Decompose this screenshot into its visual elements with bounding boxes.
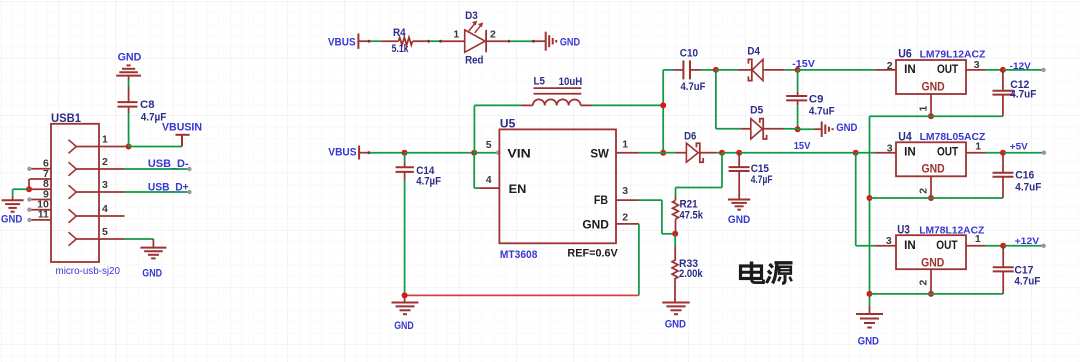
title text 电源 <box>741 262 793 284</box>
USB1 pin 8 <box>29 178 51 190</box>
capacitor C14 stem <box>404 153 406 168</box>
svg-text:GND: GND <box>560 36 580 48</box>
port VBUS symbol (mid) <box>358 146 360 160</box>
capacitor C10 value <box>681 81 706 93</box>
svg-text:2: 2 <box>918 280 930 286</box>
svg-text:C16: C16 <box>1015 169 1034 181</box>
svg-text:OUT: OUT <box>936 240 957 252</box>
capacitor C17 bottom stem <box>1002 271 1004 294</box>
ic U3 pin 2 number <box>918 280 930 286</box>
svg-text:IN: IN <box>904 240 916 252</box>
resistor R33 value <box>679 268 703 280</box>
junction U3 GND <box>928 291 934 297</box>
ic U4 part name <box>920 131 986 143</box>
capacitor C8 value <box>141 112 167 124</box>
wire VBUS to C14 <box>359 151 405 154</box>
svg-text:2: 2 <box>102 156 108 168</box>
ic U3 pin name IN <box>904 240 916 252</box>
capacitor C9 <box>786 96 807 100</box>
net label GND (USB pin5) <box>142 268 162 280</box>
svg-text:GND: GND <box>921 258 944 270</box>
ic U6 pin 1 number <box>918 106 930 112</box>
capacitor C9 designator <box>809 94 824 106</box>
svg-text:GND: GND <box>922 81 945 93</box>
wire output to R21 <box>676 153 723 197</box>
ic U4 pin 3 number <box>887 142 893 154</box>
USB1 pin 4 <box>69 203 125 223</box>
wire C14 to bottom <box>404 172 406 296</box>
capacitor C12 stem <box>1002 70 1004 91</box>
capacitor C17 designator <box>1014 265 1033 277</box>
ic U4 internal GND <box>922 164 945 176</box>
svg-text:47.5k: 47.5k <box>680 209 704 221</box>
wire to C15 junction <box>722 152 739 154</box>
capacitor C10 designator <box>680 48 698 60</box>
svg-text:4: 4 <box>486 174 492 186</box>
svg-text:GND: GND <box>836 122 857 134</box>
capacitor C16 stem <box>1002 153 1004 173</box>
capacitor C8 <box>118 102 138 107</box>
svg-text:USB_D-: USB_D- <box>148 158 189 170</box>
junction D6 output A <box>719 150 725 156</box>
wire FB <box>616 200 675 234</box>
ic U3 pin 3 number <box>886 235 892 247</box>
ic U6 body <box>896 60 966 94</box>
svg-text:GND: GND <box>922 164 945 176</box>
capacitor C12 bottom stem <box>1002 95 1004 117</box>
ic U5 pin 1 number <box>622 139 628 151</box>
ic U6 part name <box>920 48 986 60</box>
ic U6 pin 2 number <box>887 60 893 72</box>
svg-text:4.7uF: 4.7uF <box>681 81 706 93</box>
svg-text:VBUS: VBUS <box>328 36 356 48</box>
ic U3 part name <box>919 224 985 236</box>
ic U4 designator <box>898 131 912 143</box>
ic U6 pin 3 number <box>974 59 980 71</box>
svg-text:GND: GND <box>1 214 22 226</box>
capacitor C17 <box>993 267 1014 271</box>
junction EN/VIN node <box>471 150 477 156</box>
ic U5 pin name GND <box>582 217 609 231</box>
svg-text:1: 1 <box>975 233 981 245</box>
ic U6 pin 1 stem <box>930 94 932 116</box>
diode D6 designator <box>684 131 696 143</box>
svg-text:R4: R4 <box>393 27 406 39</box>
svg-text:VBUS: VBUS <box>328 147 356 159</box>
led D3 arrows <box>469 21 484 33</box>
net label GND (C9) <box>836 122 857 134</box>
capacitor C12 value <box>1010 88 1036 100</box>
ic U4 pin 2 number <box>918 188 930 194</box>
ic U6 pin 2 stub <box>875 69 896 71</box>
wire -15V to U6 <box>798 69 876 71</box>
resistor R21 designator <box>680 199 698 211</box>
wire R4 to D3 <box>427 40 442 43</box>
ic U6 pin name IN <box>904 64 916 76</box>
resistor R21 <box>673 197 679 234</box>
wire EN branch <box>474 153 499 188</box>
svg-text:IN: IN <box>904 146 916 158</box>
led D3 value <box>465 55 483 67</box>
led D3 <box>441 30 508 52</box>
ic U5 pin 3 number <box>622 185 628 197</box>
svg-text:GND: GND <box>394 320 414 332</box>
wire SW vertical <box>662 70 664 153</box>
wire +5V end <box>1003 151 1046 155</box>
junction SW node <box>660 150 666 156</box>
svg-text:VIN: VIN <box>507 147 530 161</box>
ic U4 pin name OUT <box>937 146 958 158</box>
junction +12V node <box>1000 243 1006 249</box>
junction U6 GND <box>928 113 934 119</box>
capacitor C12 designator <box>1010 79 1029 91</box>
junction L5/C10 corner <box>660 102 666 108</box>
svg-text:GND: GND <box>582 217 609 231</box>
svg-text:3: 3 <box>974 59 980 71</box>
svg-text:D3: D3 <box>465 10 478 22</box>
junction C9 bottom <box>795 126 801 132</box>
svg-text:EN: EN <box>509 182 527 196</box>
wire C15 to GND <box>738 171 740 200</box>
capacitor C9 stem top <box>797 70 799 96</box>
junction GND bus U4 row <box>867 195 873 201</box>
wire to VIN pin <box>474 151 500 155</box>
capacitor C12 <box>993 91 1014 95</box>
svg-text:OUT: OUT <box>937 146 958 158</box>
ic U4 pin 1 number <box>975 141 981 153</box>
led D3 designator <box>465 10 478 22</box>
diode D4 <box>716 59 798 80</box>
svg-text:OUT: OUT <box>937 64 958 76</box>
junction 15V branch <box>853 150 859 156</box>
wire bottom red return <box>405 294 639 296</box>
svg-text:5.1k: 5.1k <box>392 43 410 55</box>
svg-text:2: 2 <box>918 188 930 194</box>
svg-text:GND: GND <box>118 52 142 64</box>
capacitor C16 designator <box>1015 169 1034 181</box>
capacitor C15 designator <box>751 163 769 175</box>
svg-text:15V: 15V <box>794 141 811 152</box>
net label 15V <box>794 141 811 152</box>
svg-text:C10: C10 <box>680 48 698 60</box>
svg-text:10uH: 10uH <box>559 76 583 88</box>
USB1 pin 3 <box>69 179 125 199</box>
ic U6 pin name OUT <box>937 64 958 76</box>
net label GND (C15) <box>728 214 750 226</box>
svg-text:GND: GND <box>142 268 162 280</box>
wire U6 GND row <box>870 115 1003 117</box>
port VBUS symbol (top) <box>357 34 359 49</box>
junction GND bus U3 row <box>867 291 873 297</box>
junction +5V node <box>1000 150 1006 156</box>
svg-text:4.7uF: 4.7uF <box>809 105 835 117</box>
wire USB_D- <box>125 167 192 171</box>
net label GND (USB left) <box>1 214 22 226</box>
connector USB1 designator <box>51 113 82 125</box>
svg-text:micro-usb-sj20: micro-usb-sj20 <box>56 266 121 277</box>
svg-text:3: 3 <box>102 179 108 191</box>
inductor L5 <box>521 88 592 105</box>
connector USB1 body <box>51 124 99 262</box>
ground GND (C14) <box>392 295 419 314</box>
svg-text:3: 3 <box>887 142 893 154</box>
capacitor C15 <box>729 167 750 171</box>
svg-text:SW: SW <box>590 147 609 161</box>
diode D6 <box>663 143 722 162</box>
capacitor C9 value <box>809 105 835 117</box>
ic U5 pin name EN <box>509 182 527 196</box>
svg-text:4: 4 <box>102 203 108 215</box>
wire D3 to GND <box>508 40 535 43</box>
svg-text:FB: FB <box>594 193 608 207</box>
net label +5V <box>1010 142 1029 153</box>
svg-text:+5V: +5V <box>1010 142 1029 153</box>
USB1 pin 11 <box>27 209 51 222</box>
ic U4 body <box>896 142 966 176</box>
net label GND (top right) <box>560 36 580 48</box>
ground GND (above C8, flipped) <box>116 65 141 75</box>
svg-text:REF=0.6V: REF=0.6V <box>567 248 618 260</box>
wire SW pin to D6 <box>616 152 663 154</box>
junction U4 GND <box>928 195 934 201</box>
ic U3 pin name OUT <box>936 240 957 252</box>
svg-text:-15V: -15V <box>792 59 815 70</box>
ground GND (R33) <box>662 303 690 315</box>
svg-text:4.7uF: 4.7uF <box>1010 88 1036 100</box>
wire L5 to SW corner <box>593 104 663 106</box>
diode D5 <box>741 119 798 139</box>
net label GND (above C8) <box>118 52 142 64</box>
svg-text:GND: GND <box>728 214 750 226</box>
net label USB_D+ <box>148 182 189 194</box>
svg-text:1: 1 <box>102 133 108 145</box>
junction -15V node <box>795 67 801 73</box>
diode D5 designator <box>750 105 763 117</box>
inductor L5 value <box>559 76 583 88</box>
net label VBUS (top) <box>328 36 356 48</box>
resistor R33 designator <box>679 258 698 270</box>
junction C14 bottom <box>402 292 408 298</box>
ic U6 pin 3 stub <box>966 69 1003 71</box>
svg-text:1: 1 <box>975 141 981 153</box>
USB1 pin 7 <box>29 168 51 180</box>
wire -12V end <box>1003 68 1046 72</box>
svg-text:VBUSIN: VBUSIN <box>162 122 202 134</box>
diode D3 pin 1 number <box>453 29 459 41</box>
svg-text:C8: C8 <box>140 99 155 111</box>
svg-text:Red: Red <box>465 55 483 67</box>
capacitor C15 stem <box>738 153 740 167</box>
svg-text:11: 11 <box>38 209 49 221</box>
wire pin5 to GND <box>125 238 154 240</box>
wire GND bus vertical <box>869 116 871 306</box>
svg-text:4.7µF: 4.7µF <box>751 174 773 186</box>
diode D5 wire from C10 junction <box>716 70 741 129</box>
svg-text:4.7uF: 4.7uF <box>1014 275 1040 287</box>
wire U3 GND row <box>870 293 1004 295</box>
ic U3 pin 1 number <box>975 233 981 245</box>
ic U6 designator <box>898 48 912 60</box>
wire VIN junction up <box>474 105 521 152</box>
wire +12V end <box>1003 244 1046 248</box>
wire C14 junction to EN junction <box>405 152 475 154</box>
svg-text:U6: U6 <box>898 48 912 60</box>
svg-text:2: 2 <box>490 29 496 41</box>
ic U3 pin 1 stub <box>966 245 1003 247</box>
capacitor C14 <box>396 167 414 172</box>
connector USB1 part name <box>56 266 121 277</box>
ic U4 pin 1 stub <box>966 152 1003 154</box>
capacitor C16 bottom stem <box>1002 177 1004 198</box>
net label GND (R33) <box>665 319 686 331</box>
wire pin1 to junction <box>125 146 129 148</box>
net label GND (bus bottom) <box>858 336 879 348</box>
ic U5 pin 4 number <box>486 174 492 186</box>
port VBUSIN symbol <box>176 135 190 147</box>
net label -12V <box>1010 61 1032 72</box>
svg-text:3: 3 <box>622 185 628 197</box>
junction VBUSIN node <box>126 144 132 150</box>
ic U5 pin name VIN <box>507 147 530 161</box>
svg-text:1: 1 <box>622 139 628 151</box>
ic U5 designator <box>500 119 516 131</box>
diode D4 designator <box>747 46 760 58</box>
ic U5 pin 5 number <box>486 139 492 151</box>
USB1 pin 2 <box>69 156 125 176</box>
net label +12V <box>1015 236 1040 247</box>
junction C10 right <box>713 67 719 73</box>
capacitor C8 designator <box>140 99 155 111</box>
ground GND (C9, rotated) <box>822 121 833 137</box>
svg-text:L5: L5 <box>534 76 545 88</box>
svg-text:5: 5 <box>486 139 492 151</box>
svg-text:1: 1 <box>453 29 459 41</box>
net label GND (C14) <box>394 320 414 332</box>
USB1 pin 6 <box>27 158 51 171</box>
ic U5 part name <box>500 249 538 261</box>
wire USB_D+ <box>125 190 192 194</box>
svg-text:5: 5 <box>102 226 108 238</box>
ground GND (bus bottom) <box>856 306 883 328</box>
wire 15V to U4 <box>856 152 896 154</box>
resistor R4 <box>381 37 428 45</box>
capacitor C10 <box>663 60 716 79</box>
resistor R4 value <box>392 43 410 55</box>
ic U3 pin 2 stem <box>930 269 932 294</box>
capacitor C15 value <box>751 174 773 186</box>
ic U3 internal GND <box>921 258 944 270</box>
wire U5 GND pin <box>616 224 639 296</box>
net label USB_D- <box>148 158 189 170</box>
ic U5 pin name SW <box>590 147 609 161</box>
ground GND (C15) <box>728 200 750 210</box>
resistor R4 designator <box>393 27 406 39</box>
net label VBUS (mid) <box>328 147 356 159</box>
wire VBUSIN <box>129 146 182 148</box>
USB1 pin 1 <box>69 133 125 153</box>
svg-text:4.7µF: 4.7µF <box>141 112 167 124</box>
ground GND (USB left) <box>2 197 24 212</box>
svg-text:1: 1 <box>918 106 930 112</box>
wire U4 GND row <box>870 197 1004 199</box>
resistor R21 value <box>680 209 704 221</box>
wire C9 to GND <box>798 128 822 130</box>
wire C8 to ground <box>128 76 130 103</box>
wire pin8 to GND <box>13 189 29 196</box>
junction FB node <box>672 231 678 237</box>
ic U6 internal GND <box>922 81 945 93</box>
svg-text:D5: D5 <box>750 105 763 117</box>
USB1 pin 5 <box>69 226 125 246</box>
resistor R33 <box>672 234 678 303</box>
svg-text:2.00k: 2.00k <box>679 268 703 280</box>
wire 15V rail <box>739 152 856 154</box>
diode D3 pin 2 number <box>490 29 496 41</box>
junction C14 top <box>402 150 408 156</box>
capacitor C16 value <box>1015 181 1041 193</box>
capacitor C14 value <box>416 176 441 188</box>
wire VBUS to R4 <box>358 40 381 43</box>
ground GND (USB pin5) <box>140 239 166 258</box>
svg-text:D4: D4 <box>747 46 760 58</box>
svg-text:C9: C9 <box>809 94 824 106</box>
capacitor C16 <box>993 173 1014 177</box>
ic U5 REF text <box>567 248 618 260</box>
svg-text:4.7uF: 4.7uF <box>1015 181 1041 193</box>
svg-text:IN: IN <box>904 64 916 76</box>
svg-text:4.7µF: 4.7µF <box>416 176 441 188</box>
net label VBUSIN <box>162 122 202 134</box>
ic U3 pin 3 stub <box>875 245 896 247</box>
ic U4 pin name IN <box>904 146 916 158</box>
capacitor C14 designator <box>416 165 435 177</box>
ic U3 body <box>896 235 966 269</box>
svg-text:MT3608: MT3608 <box>500 249 538 261</box>
junction -12V node <box>1000 67 1006 73</box>
USB1 pin 10 <box>27 199 51 212</box>
capacitor C17 value <box>1014 275 1040 287</box>
ground GND (top right, rotated) <box>534 32 556 51</box>
svg-text:GND: GND <box>858 336 879 348</box>
USB1 pin 9 <box>27 188 51 201</box>
svg-text:D6: D6 <box>684 131 696 143</box>
junction C15 top <box>736 150 742 156</box>
wire 15V vertical to U3 <box>856 153 875 246</box>
inductor L5 designator <box>534 76 545 88</box>
wire junction to C8 <box>128 107 130 147</box>
ic U5 pin name FB <box>594 193 608 207</box>
svg-text:2: 2 <box>622 212 628 224</box>
ic U4 pin 2 stem <box>930 176 932 198</box>
ic U5 pin 2 number <box>622 212 628 224</box>
svg-text:USB_D+: USB_D+ <box>148 182 189 194</box>
capacitor C9 stem bottom <box>797 100 799 129</box>
wire pin7-pin8 tie <box>28 179 30 189</box>
ic U3 designator <box>897 224 910 236</box>
junction pin8 <box>26 186 32 192</box>
net label -15V <box>792 59 815 70</box>
ic U5 body <box>499 129 616 243</box>
svg-text:GND: GND <box>665 319 686 331</box>
capacitor C17 stem <box>1002 246 1004 267</box>
